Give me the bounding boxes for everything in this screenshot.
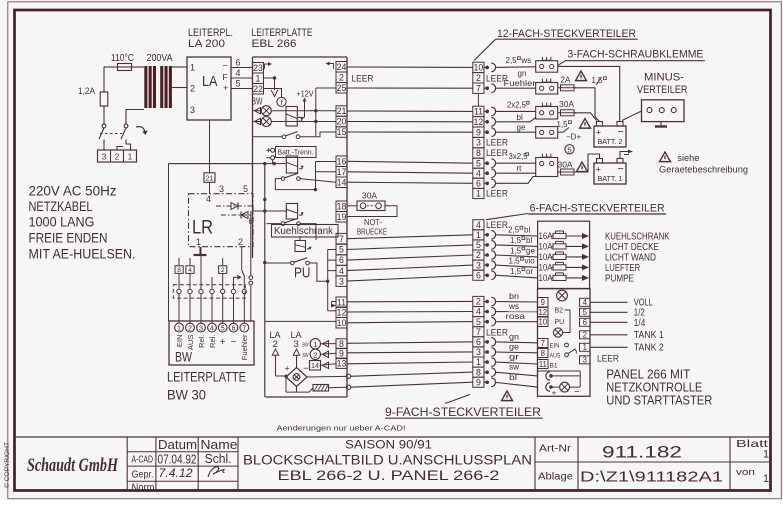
svg-text:10A: 10A (539, 273, 553, 283)
svg-text:3x2,5: 3x2,5 (509, 152, 529, 161)
svg-text:PUMPE: PUMPE (605, 274, 634, 285)
svg-text:8: 8 (339, 339, 344, 349)
svg-text:3: 3 (339, 276, 344, 286)
svg-text:LICHT WAND: LICHT WAND (605, 253, 656, 264)
svg-text:5: 5 (567, 145, 571, 154)
svg-text:EIN: EIN (175, 335, 184, 348)
svg-text:2: 2 (115, 153, 120, 162)
svg-text:220V AC 50Hz: 220V AC 50Hz (29, 183, 117, 199)
svg-text:LA: LA (202, 73, 218, 90)
svg-text:1/2: 1/2 (634, 308, 645, 319)
svg-text:9: 9 (339, 348, 344, 358)
svg-text:7: 7 (339, 234, 344, 244)
svg-text:1: 1 (476, 189, 481, 199)
svg-text:ws: ws (508, 301, 519, 311)
svg-text:4: 4 (236, 68, 241, 78)
svg-text:© COPYRIGHT: © COPYRIGHT (3, 442, 11, 488)
svg-text:11: 11 (337, 297, 346, 307)
svg-text:4: 4 (476, 307, 481, 317)
svg-text:2: 2 (273, 339, 278, 350)
svg-text:2A: 2A (561, 76, 571, 85)
svg-text:2: 2 (476, 297, 481, 307)
svg-text:BW: BW (303, 342, 310, 348)
svg-text:BW: BW (252, 97, 263, 108)
svg-text:B2: B2 (555, 308, 564, 315)
svg-text:LEER: LEER (597, 354, 619, 365)
svg-text:19: 19 (337, 212, 347, 222)
svg-text:13: 13 (337, 359, 347, 369)
svg-text:07.04.92: 07.04.92 (158, 451, 197, 466)
svg-text:PU: PU (294, 265, 311, 282)
svg-text:8: 8 (177, 267, 181, 274)
svg-text:EBL 266: EBL 266 (252, 38, 297, 50)
svg-text:LEER: LEER (486, 188, 508, 199)
svg-text:BLOCKSCHALTBILD U.ANSCHLUSSPLA: BLOCKSCHALTBILD U.ANSCHLUSSPLAN (243, 453, 532, 469)
svg-text:1: 1 (177, 323, 181, 332)
svg-text:4: 4 (210, 323, 214, 332)
svg-text:17: 17 (337, 167, 347, 177)
svg-text:4: 4 (339, 266, 344, 276)
svg-text:2,5: 2,5 (506, 56, 518, 65)
svg-text:1: 1 (190, 63, 195, 73)
svg-text:Rel.: Rel. (208, 335, 217, 349)
svg-text:ge: ge (517, 123, 526, 132)
svg-text:Art-Nr: Art-Nr (539, 444, 572, 455)
svg-text:12: 12 (474, 117, 484, 127)
svg-text:EIN: EIN (550, 342, 560, 349)
svg-text:SAISON 90/91: SAISON 90/91 (345, 440, 432, 452)
svg-text:or: or (526, 267, 533, 276)
svg-text:21: 21 (337, 106, 347, 116)
svg-text:1,2A: 1,2A (78, 86, 95, 96)
svg-text:bl: bl (524, 226, 530, 235)
svg-text:D:\Z1\911182A1: D:\Z1\911182A1 (580, 469, 723, 486)
svg-text:12-FACH-STECKVERTEILER: 12-FACH-STECKVERTEILER (497, 28, 636, 40)
svg-text:2: 2 (238, 237, 243, 247)
svg-text:3: 3 (102, 153, 107, 162)
svg-text:Fuehler: Fuehler (240, 334, 249, 360)
svg-text:PU: PU (555, 319, 565, 326)
svg-text:sw: sw (509, 362, 520, 372)
svg-text:1: 1 (196, 237, 201, 247)
svg-text:MIT AE-HUELSEN.: MIT AE-HUELSEN. (29, 246, 136, 262)
svg-text:2: 2 (188, 323, 192, 332)
svg-text:5: 5 (476, 158, 481, 168)
svg-text:LEER: LEER (486, 220, 508, 231)
svg-text:B1: B1 (550, 363, 558, 370)
svg-text:18: 18 (337, 201, 347, 211)
svg-text:9: 9 (541, 298, 545, 307)
svg-text:21: 21 (206, 176, 214, 183)
svg-text:2: 2 (221, 267, 225, 274)
svg-text:30A: 30A (559, 100, 575, 109)
svg-text:von: von (736, 467, 755, 478)
svg-text:Aenderungen nur ueber A-CAD!: Aenderungen nur ueber A-CAD! (277, 423, 406, 432)
svg-text:5: 5 (476, 240, 481, 250)
svg-text:3: 3 (476, 260, 481, 270)
svg-text:1: 1 (128, 153, 133, 162)
svg-text:+: + (552, 387, 557, 397)
svg-text:LR: LR (192, 218, 213, 239)
svg-text:1: 1 (583, 343, 587, 352)
svg-text:2: 2 (476, 73, 481, 83)
svg-text:bl: bl (509, 372, 517, 382)
svg-text:1: 1 (256, 73, 261, 83)
svg-text:7: 7 (541, 339, 545, 348)
svg-text:Schaudt GmbH: Schaudt GmbH (27, 455, 119, 476)
svg-text:Norm: Norm (132, 482, 155, 494)
svg-text:16: 16 (337, 156, 347, 166)
svg-text:10: 10 (538, 318, 547, 327)
svg-text:30A: 30A (362, 192, 378, 201)
svg-text:BRUECKE: BRUECKE (357, 227, 387, 237)
svg-text:1,5: 1,5 (557, 120, 569, 129)
svg-text:1: 1 (763, 473, 769, 485)
svg-text:23: 23 (253, 63, 263, 73)
svg-text:gr: gr (509, 352, 519, 362)
svg-text:1,5: 1,5 (509, 257, 521, 266)
svg-text:Gepr.: Gepr. (132, 468, 154, 480)
svg-text:7: 7 (242, 323, 246, 332)
svg-text:ws: ws (521, 56, 532, 65)
svg-text:10: 10 (337, 318, 347, 328)
svg-text:3: 3 (583, 356, 587, 365)
svg-text:gn: gn (509, 331, 519, 341)
svg-text:8: 8 (541, 349, 545, 358)
svg-text:1: 1 (476, 230, 481, 240)
svg-text:6: 6 (476, 337, 481, 347)
svg-text:3: 3 (476, 347, 481, 357)
svg-text:1: 1 (313, 340, 317, 349)
svg-text:LEER: LEER (486, 327, 508, 338)
svg-text:7.4.12: 7.4.12 (159, 468, 194, 480)
svg-text:UND STARTTASTER: UND STARTTASTER (606, 392, 712, 407)
svg-text:10A: 10A (539, 252, 553, 262)
svg-text:BATT. 2: BATT. 2 (598, 137, 623, 146)
svg-text:Ablage: Ablage (538, 472, 573, 483)
svg-text:5: 5 (236, 79, 241, 89)
svg-text:MINUS-: MINUS- (644, 72, 684, 84)
svg-text:9: 9 (476, 377, 481, 387)
svg-text:LEER: LEER (486, 148, 508, 159)
svg-text:911.182: 911.182 (602, 444, 682, 462)
svg-text:11: 11 (474, 107, 483, 117)
svg-text:10A: 10A (539, 262, 553, 272)
svg-text:F: F (223, 72, 228, 82)
svg-text:25: 25 (337, 83, 347, 93)
svg-text:1,5: 1,5 (510, 236, 522, 245)
svg-text:3: 3 (219, 184, 224, 194)
svg-text:30A: 30A (558, 161, 574, 170)
svg-text:20: 20 (337, 117, 347, 127)
svg-text:LEER: LEER (486, 138, 508, 149)
svg-text:TANK 1: TANK 1 (634, 330, 664, 341)
svg-text:3-FACH-SCHRAUBKLEMME: 3-FACH-SCHRAUBKLEMME (567, 49, 703, 61)
svg-text:11: 11 (539, 360, 547, 369)
svg-text:2: 2 (339, 72, 344, 82)
svg-text:4: 4 (583, 298, 588, 307)
svg-text:LUEFTER: LUEFTER (605, 263, 640, 274)
svg-text:FREIE ENDEN: FREIE ENDEN (29, 230, 108, 246)
svg-text:5: 5 (339, 245, 344, 255)
svg-text:6-FACH-STECKVERTEILER: 6-FACH-STECKVERTEILER (530, 203, 665, 215)
svg-text:14: 14 (311, 361, 319, 370)
svg-text:5: 5 (221, 323, 225, 332)
svg-text:3: 3 (190, 105, 195, 115)
svg-text:6: 6 (476, 178, 481, 188)
svg-text:BATT. 1: BATT. 1 (598, 174, 623, 183)
svg-text:NOT-: NOT- (364, 217, 382, 227)
svg-text:NETZKABEL: NETZKABEL (29, 198, 93, 214)
svg-text:6: 6 (236, 58, 241, 68)
svg-text:2: 2 (190, 84, 195, 94)
svg-text:−D+: −D+ (566, 133, 581, 142)
svg-text:6: 6 (232, 323, 236, 332)
svg-text:2: 2 (476, 250, 481, 260)
svg-text:LEER: LEER (352, 74, 374, 85)
svg-text:24: 24 (337, 62, 347, 72)
svg-text:vio: vio (525, 257, 536, 266)
svg-text:rosa: rosa (506, 311, 526, 321)
svg-text:AUS: AUS (550, 352, 562, 359)
svg-text:Batt.-Trenn.: Batt.-Trenn. (278, 150, 314, 157)
svg-text:−: − (303, 364, 309, 375)
svg-text:KUEHLSCHRANK: KUEHLSCHRANK (605, 232, 670, 243)
svg-text:1: 1 (476, 357, 481, 367)
svg-text:−: − (223, 61, 228, 71)
svg-text:3: 3 (199, 323, 203, 332)
svg-text:Kuehlschrank: Kuehlschrank (274, 226, 334, 237)
svg-text:VERTEILER: VERTEILER (637, 84, 688, 96)
svg-text:9-FACH-STECKVERTEILER: 9-FACH-STECKVERTEILER (385, 405, 541, 419)
svg-text:3: 3 (294, 339, 299, 350)
svg-text:Name: Name (201, 437, 238, 452)
svg-text:2: 2 (583, 331, 587, 340)
svg-text:BW: BW (175, 349, 193, 365)
svg-text:1/4: 1/4 (634, 318, 646, 329)
svg-text:Geraetebeschreibung: Geraetebeschreibung (659, 165, 748, 175)
svg-text:110°C: 110°C (111, 52, 134, 64)
svg-text:16A: 16A (539, 231, 553, 241)
svg-text:1,5: 1,5 (510, 267, 522, 276)
svg-text:2x2,5: 2x2,5 (507, 101, 527, 110)
svg-text:200VA: 200VA (147, 52, 173, 64)
svg-text:1000 LANG: 1000 LANG (29, 214, 95, 230)
svg-text:8: 8 (476, 367, 481, 377)
svg-text:12: 12 (337, 307, 347, 317)
svg-text:7: 7 (476, 83, 481, 93)
svg-text:BW 30: BW 30 (167, 387, 206, 403)
svg-text:5: 5 (476, 317, 481, 327)
svg-text:2,5: 2,5 (508, 226, 520, 235)
svg-text:Rel.: Rel. (197, 335, 206, 349)
svg-text:−: − (231, 337, 237, 348)
svg-text:1: 1 (763, 449, 769, 461)
svg-text:+: + (220, 337, 226, 348)
svg-text:bl: bl (526, 236, 532, 245)
svg-text:7: 7 (476, 327, 481, 337)
svg-text:bl: bl (517, 113, 523, 122)
svg-text:Fuehler: Fuehler (504, 79, 536, 88)
svg-text:Schl.: Schl. (205, 451, 232, 466)
svg-text:LA 200: LA 200 (188, 38, 225, 50)
svg-text:9: 9 (476, 127, 481, 137)
svg-text:5: 5 (243, 184, 248, 194)
svg-text:−: − (574, 387, 580, 398)
svg-text:4: 4 (476, 168, 481, 178)
svg-text:A-CAD: A-CAD (132, 454, 154, 466)
svg-text:8: 8 (476, 148, 481, 158)
svg-text:14: 14 (337, 177, 347, 187)
svg-text:LEITERPLATTE: LEITERPLATTE (167, 369, 246, 385)
svg-text:LICHT DECKE: LICHT DECKE (605, 242, 659, 253)
svg-text:4: 4 (476, 220, 481, 230)
svg-text:22: 22 (253, 84, 263, 94)
svg-text:+: + (223, 83, 228, 93)
svg-text:EBL 266-2 U. PANEL 266-2: EBL 266-2 U. PANEL 266-2 (278, 468, 500, 484)
svg-text:2: 2 (313, 350, 317, 359)
svg-text:10A: 10A (539, 241, 553, 251)
svg-text:12: 12 (538, 308, 547, 317)
svg-text:Datum: Datum (158, 437, 197, 452)
svg-text:ge: ge (509, 342, 519, 352)
svg-text:BW: BW (303, 353, 310, 359)
svg-text:bn: bn (509, 291, 519, 301)
svg-text:6: 6 (583, 318, 587, 327)
svg-text:rt: rt (517, 164, 523, 173)
svg-text:10: 10 (474, 63, 484, 73)
svg-text:15: 15 (337, 127, 347, 137)
svg-text:gn: gn (518, 69, 527, 78)
svg-text:siehe: siehe (677, 153, 699, 163)
svg-text:5: 5 (583, 308, 588, 317)
svg-text:4: 4 (188, 267, 192, 274)
svg-text:3: 3 (476, 138, 481, 148)
svg-text:ge: ge (526, 246, 535, 255)
svg-text:1,5: 1,5 (510, 246, 522, 255)
svg-text:+12V: +12V (297, 90, 314, 99)
svg-text:6: 6 (339, 255, 344, 265)
svg-text:6: 6 (476, 270, 481, 280)
svg-text:TANK 2: TANK 2 (634, 343, 664, 354)
svg-text:4: 4 (206, 194, 211, 204)
svg-text:+: + (285, 364, 290, 374)
